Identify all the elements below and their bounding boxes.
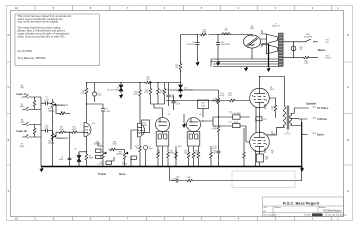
svg-text:32uF 450V: 32uF 450V	[221, 44, 231, 46]
svg-text:Drawn By: Terry Bateman: Drawn By: Terry Bateman	[328, 214, 347, 217]
svg-text:Bass: Bass	[119, 172, 126, 176]
svg-text:SK4: SK4	[313, 117, 316, 119]
svg-text:A: A	[347, 189, 349, 193]
svg-text:500pF: 500pF	[122, 164, 128, 166]
svg-text:820R: 820R	[89, 158, 94, 160]
svg-text:Input #1: Input #1	[17, 92, 28, 96]
svg-text:R18: R18	[166, 90, 169, 92]
svg-text:R32: R32	[187, 177, 190, 179]
svg-text:32+32uF 450V: 32+32uF 450V	[107, 90, 120, 92]
svg-text:R27: R27	[264, 119, 267, 121]
svg-text:3 Ohms: 3 Ohms	[317, 117, 327, 121]
svg-text:Neutral: Neutral	[326, 57, 332, 60]
svg-text:100R: 100R	[202, 32, 207, 34]
svg-text:C5: C5	[74, 149, 76, 151]
svg-text:D: D	[347, 33, 349, 37]
svg-text:Title: Title	[264, 206, 267, 209]
svg-text:Live: Live	[326, 42, 329, 44]
svg-text:Number: Number	[275, 206, 281, 209]
svg-text:1M(log): 1M(log)	[48, 111, 54, 113]
svg-text:EZ81: EZ81	[250, 28, 254, 30]
svg-text:Input #2: Input #2	[17, 129, 28, 133]
svg-text:(68K): (68K)	[20, 106, 25, 108]
svg-text:B: B	[347, 138, 349, 142]
svg-text:Earth: Earth	[317, 132, 324, 136]
svg-text:C18: C18	[176, 177, 179, 179]
svg-text:Treble: Treble	[98, 172, 106, 176]
svg-text:Terry Bateman. 08/01/09: Terry Bateman. 08/01/09	[18, 56, 46, 60]
svg-text:Volume 1: Volume 1	[56, 103, 68, 107]
svg-text:8-Jan-2009: 8-Jan-2009	[268, 215, 277, 217]
svg-text:V3: V3	[199, 114, 201, 116]
svg-text:(ON-OFF): (ON-OFF)	[304, 36, 312, 38]
svg-text:Mains: Mains	[318, 48, 326, 52]
svg-text:A: A	[8, 189, 10, 193]
svg-text:C14: C14	[228, 122, 231, 124]
svg-text:O.P. TX: O.P. TX	[284, 134, 291, 136]
svg-text:Speaker: Speaker	[306, 102, 316, 106]
svg-text:0.05uF: 0.05uF	[97, 164, 103, 166]
svg-text:C: C	[8, 85, 10, 89]
svg-text:D: D	[8, 33, 10, 37]
svg-text:(1M): (1M)	[20, 87, 24, 89]
svg-text:RSCBassRegent: RSCBassRegent	[323, 210, 341, 213]
svg-text:Volume 2: Volume 2	[56, 136, 68, 140]
svg-text:R19: R19	[201, 103, 204, 105]
svg-text:15 Ohms: 15 Ohms	[317, 106, 329, 110]
svg-text:R.S.C. Bass Regent: R.S.C. Bass Regent	[283, 200, 320, 205]
svg-text:R22: R22	[178, 146, 181, 148]
svg-text:0.1uF 400V: 0.1uF 400V	[231, 113, 241, 115]
svg-text:(1M): (1M)	[20, 122, 24, 124]
svg-text:1 of 1: 1 of 1	[313, 215, 317, 217]
svg-text:6P14: 6P14	[270, 89, 274, 91]
svg-text:Ser No 2560: Ser No 2560	[18, 49, 33, 53]
svg-text:6P14: 6P14	[271, 134, 275, 136]
svg-text:SK3: SK3	[313, 106, 316, 108]
svg-text:B: B	[8, 138, 10, 142]
svg-text:(68K): (68K)	[20, 146, 25, 148]
svg-text:which I'd put at very late 60': which I'd put at very late 60's or early…	[18, 34, 66, 38]
svg-text:32uF 450V: 32uF 450V	[184, 90, 194, 92]
svg-text:500K(lin): 500K(lin)	[116, 154, 124, 156]
svg-text:Date: Date	[264, 214, 268, 217]
svg-text:may not be the same as the ori: may not be the same as the original.	[18, 20, 59, 24]
svg-text:C: C	[347, 85, 349, 89]
svg-text:SK5: SK5	[313, 133, 316, 135]
svg-text:32uF 450V: 32uF 450V	[187, 44, 197, 46]
svg-text:Mains TX: Mains TX	[272, 26, 280, 28]
svg-text:Sheet: Sheet	[307, 214, 312, 217]
svg-text:A4: A4	[264, 210, 266, 213]
svg-text:V1a: V1a	[92, 123, 95, 125]
svg-text:500K(lin): 500K(lin)	[93, 144, 101, 146]
svg-text:1M(log): 1M(log)	[48, 143, 54, 145]
svg-text:V2: V2	[168, 114, 170, 116]
